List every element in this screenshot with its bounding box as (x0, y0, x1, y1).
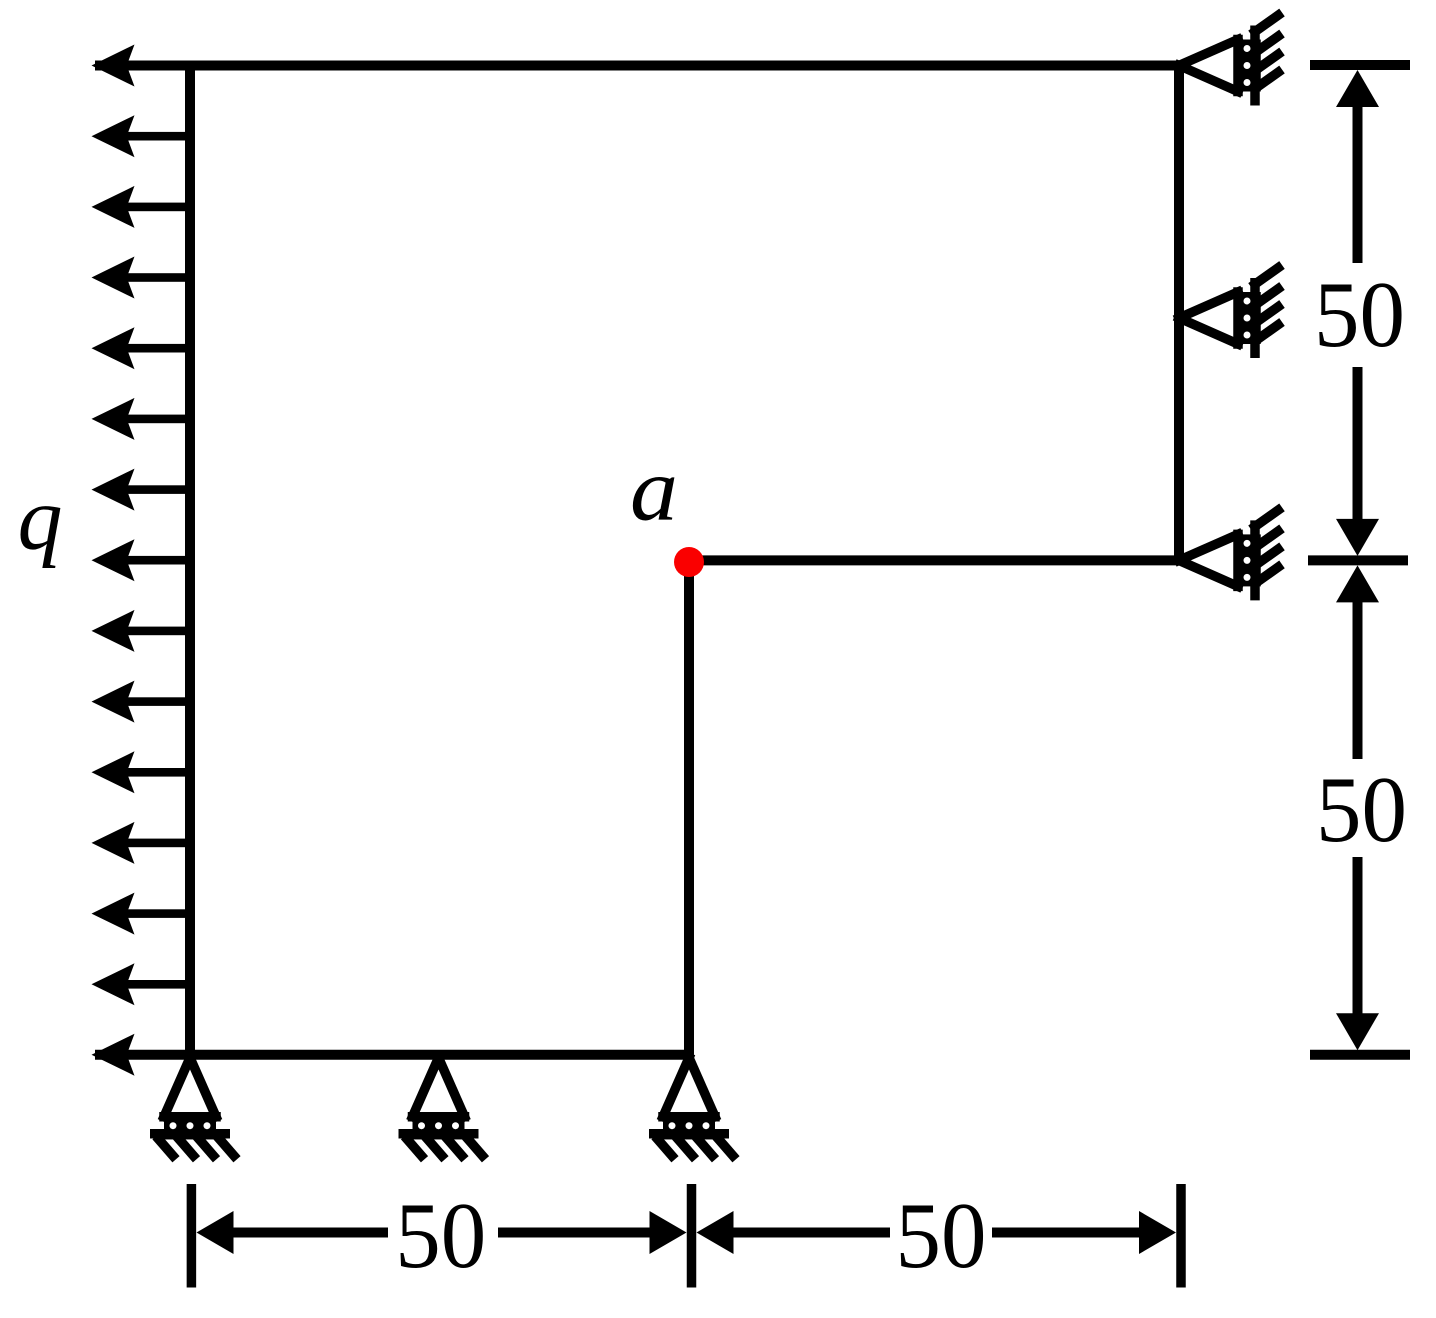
right dimension: ticks (1308, 65, 1410, 1055)
tick at left edge (187, 1184, 197, 1288)
svg-text:q: q (18, 470, 63, 569)
tick at bottom edge level (1310, 1050, 1410, 1060)
wire right edge (1174, 66, 1184, 561)
load arrow 4 (92, 257, 191, 299)
dim arrowhead up at top tick (1336, 70, 1379, 107)
dim arrowhead left at middle tick (697, 1211, 734, 1254)
node a red dot (674, 547, 704, 577)
bottom dimension right segment (50) (697, 1211, 1177, 1254)
load arrow 10 (92, 681, 191, 723)
load arrow 8 (92, 539, 191, 581)
svg-text:a: a (630, 441, 678, 540)
dim shaft (1353, 857, 1363, 1015)
wire inner horizontal (689, 555, 1179, 565)
dim shaft (498, 1228, 650, 1238)
roller support right bottom (1179, 507, 1282, 600)
roller support bottom left (150, 1058, 237, 1160)
wire top edge (95, 61, 1184, 71)
bottom dimension: ticks (191, 1184, 1181, 1288)
load arrow 3 (92, 186, 191, 228)
tick at inner corner level (1308, 555, 1408, 565)
right dimension lower segment (50) (1336, 565, 1379, 1050)
tick at top edge level (1310, 60, 1410, 70)
load arrow 6 (92, 398, 191, 440)
wire inner vertical (684, 560, 694, 1054)
dim shaft (230, 1228, 388, 1238)
load arrow 7 (92, 469, 191, 511)
svg-text:50: 50 (395, 1184, 486, 1288)
load arrow 13 (92, 893, 191, 935)
bottom dimension left segment (50) (197, 1211, 687, 1254)
roller support bottom right (649, 1058, 736, 1160)
dim arrowhead left at left tick (197, 1211, 234, 1254)
dim shaft (1353, 599, 1363, 759)
roller support right middle (1179, 265, 1282, 358)
load arrow 5 (92, 327, 191, 369)
wire bottom edge (95, 1050, 689, 1060)
wire left edge (185, 61, 195, 1060)
load arrow 2 (92, 115, 191, 157)
tick at inner corner (687, 1184, 697, 1288)
dim arrowhead up at middle tick (1336, 565, 1379, 602)
dim shaft (992, 1228, 1140, 1238)
dim shaft (730, 1228, 890, 1238)
load arrow 9 (92, 610, 191, 652)
dim shaft (1353, 367, 1363, 521)
roller support bottom middle (399, 1058, 486, 1160)
dim arrowhead down at bottom tick (1336, 1013, 1379, 1050)
dim shaft (1353, 103, 1363, 263)
dim arrowhead right at right tick (1139, 1211, 1176, 1254)
distributed load q arrows on left edge (92, 45, 191, 1076)
dim arrowhead right at middle tick (650, 1211, 687, 1254)
load arrow 14 (92, 963, 191, 1005)
load arrow 1 (92, 45, 191, 87)
svg-text:50: 50 (1316, 758, 1407, 862)
load arrow 11 (92, 751, 191, 793)
tick at right edge (1176, 1184, 1186, 1288)
roller support right top (1179, 13, 1282, 106)
svg-text:50: 50 (1314, 263, 1405, 367)
dim arrowhead down at middle tick (1336, 519, 1379, 556)
svg-text:50: 50 (896, 1184, 987, 1288)
load arrow 15 (92, 1034, 191, 1076)
right dimension upper segment (50) (1336, 70, 1379, 556)
load arrow 12 (92, 822, 191, 864)
